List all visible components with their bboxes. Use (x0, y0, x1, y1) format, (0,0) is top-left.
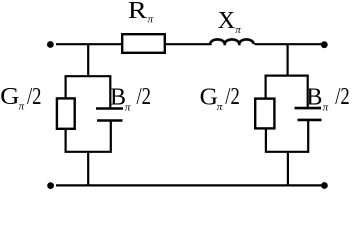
conductance G_pi/2 left box (57, 98, 75, 128)
svg-text:π: π (323, 101, 329, 113)
svg-text:X: X (218, 8, 235, 34)
svg-text:G: G (0, 84, 19, 110)
svg-text:B: B (110, 85, 126, 111)
svg-text:π: π (148, 13, 154, 25)
svg-text:B: B (306, 85, 322, 111)
wire right shunt drop from top bus (287, 44, 289, 76)
wire left shunt top bar with legs (66, 76, 111, 107)
wire right shunt to bottom bus (287, 152, 289, 186)
svg-text:/2: /2 (335, 84, 350, 110)
terminal node bottom-left (47, 182, 54, 189)
svg-text:π: π (125, 102, 131, 114)
svg-text:π: π (217, 101, 223, 113)
wire right shunt bottom bar with legs (266, 120, 308, 152)
wire top bus middle segment (165, 43, 211, 45)
terminal node top-right (321, 41, 328, 48)
wire top bus left segment (56, 43, 122, 45)
capacitor B_pi/2 right top plate (295, 107, 322, 110)
svg-text:/2: /2 (225, 84, 240, 110)
svg-text:/2: /2 (137, 84, 152, 110)
terminal node bottom-right (321, 182, 328, 189)
svg-text:/2: /2 (27, 84, 42, 110)
capacitor B_pi/2 right bottom plate (298, 119, 322, 122)
conductance G_pi/2 right box (255, 99, 274, 129)
wire right shunt top bar with legs (266, 76, 308, 107)
svg-text:π: π (235, 24, 241, 36)
svg-text:π: π (19, 101, 25, 113)
svg-text:G: G (200, 85, 218, 111)
capacitor B_pi/2 left bottom plate (97, 119, 123, 122)
wire left shunt to bottom bus (87, 152, 89, 186)
wire left shunt bottom bar with legs (66, 121, 111, 152)
capacitor B_pi/2 left top plate (96, 107, 123, 110)
wire top bus right segment (255, 43, 322, 45)
resistor R_pi box (122, 34, 165, 53)
svg-text:R: R (128, 0, 147, 24)
wire left shunt drop from top bus (87, 44, 89, 77)
wire bottom bus (56, 184, 322, 186)
terminal node top-left (47, 41, 54, 48)
inductor X_pi (210, 39, 254, 45)
